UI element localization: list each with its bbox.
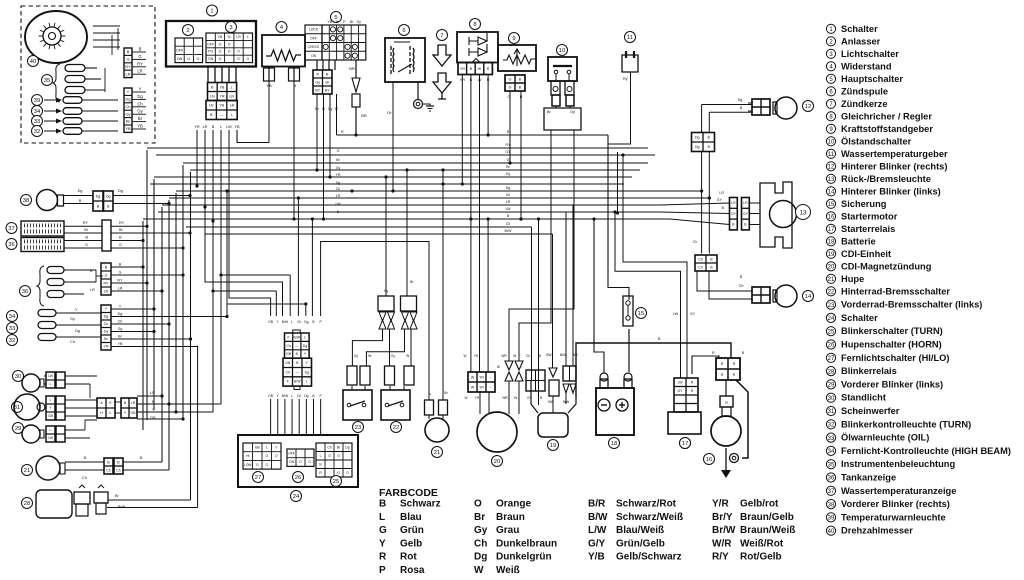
svg-text:33: 33 [9, 326, 15, 332]
fuel sender connector [505, 75, 525, 91]
bus wire R y=135 [337, 134, 609, 136]
connector below switch 1 [208, 83, 237, 101]
svg-text:YR: YR [479, 385, 484, 389]
svg-text:Y: Y [275, 446, 278, 450]
svg-text:YR: YR [220, 94, 225, 98]
svg-text:BR: BR [349, 66, 355, 71]
svg-text:Br: Br [138, 116, 143, 121]
svg-text:BW: BW [546, 353, 551, 357]
svg-text:LOCK: LOCK [309, 28, 319, 32]
magneto wires [479, 392, 481, 414]
svg-text:14: 14 [805, 294, 812, 300]
svg-text:B: B [519, 85, 522, 89]
svg-text:22: 22 [828, 290, 835, 296]
svg-text:Rosa: Rosa [400, 565, 425, 576]
svg-text:Grau: Grau [496, 525, 519, 536]
svg-text:36: 36 [22, 289, 28, 295]
svg-text:Anlasser: Anlasser [841, 36, 881, 46]
tachometer wires [93, 25, 120, 27]
svg-text:Weiß/Rot: Weiß/Rot [740, 538, 784, 549]
svg-text:W: W [497, 365, 501, 369]
svg-text:L: L [266, 446, 268, 450]
svg-text:B: B [470, 67, 473, 71]
svg-text:YB: YB [234, 125, 240, 129]
water temp gauge 37 [6, 223, 17, 234]
svg-text:Vorderer Blinker (links): Vorderer Blinker (links) [841, 379, 943, 389]
svg-text:BrW: BrW [560, 353, 566, 357]
svg-text:O: O [275, 454, 278, 458]
svg-text:WR: WR [501, 354, 507, 358]
svg-text:H: H [100, 411, 103, 415]
svg-text:8: 8 [829, 115, 833, 121]
svg-text:15: 15 [638, 311, 644, 317]
rectifier connector [472, 59, 480, 63]
svg-text:–: – [490, 375, 492, 379]
svg-text:5: 5 [829, 77, 833, 83]
svg-text:39: 39 [828, 516, 835, 522]
svg-text:—: — [296, 370, 300, 374]
rectifier 8 [470, 19, 481, 30]
svg-text:16: 16 [828, 215, 835, 221]
svg-text:Instrumentenbeleuchtung: Instrumentenbeleuchtung [841, 459, 955, 469]
scheinwerfer 31 [12, 402, 23, 413]
svg-text:Ch: Ch [286, 370, 290, 374]
svg-text:GY: GY [731, 212, 737, 216]
svg-text:O: O [337, 454, 340, 458]
svg-text:Br: Br [337, 445, 341, 449]
svg-text:Fernlicht-Kontrolleuchte (HIGH: Fernlicht-Kontrolleuchte (HIGH BEAM) [841, 446, 1011, 456]
svg-text:YR: YR [474, 354, 479, 358]
turn switch 25 [316, 443, 352, 477]
svg-text:34: 34 [9, 314, 16, 320]
bus wire Br y=170 [190, 169, 640, 171]
wires 12 connector [701, 105, 703, 133]
misc junction dots [519, 217, 522, 220]
svg-text:L: L [50, 428, 52, 432]
svg-text:RY: RY [119, 221, 125, 225]
svg-text:Temperaturwarnleuchte: Temperaturwarnleuchte [841, 512, 946, 522]
svg-text:Wassertemperaturanzeige: Wassertemperaturanzeige [841, 486, 956, 496]
svg-text:7: 7 [440, 33, 443, 39]
svg-text:39: 39 [34, 98, 40, 104]
svg-text:Rot/Gelb: Rot/Gelb [740, 552, 782, 563]
svg-text:35: 35 [44, 78, 50, 84]
svg-text:GY: GY [505, 150, 511, 154]
svg-text:P: P [379, 565, 386, 576]
svg-text:B: B [379, 499, 386, 510]
svg-text:Y: Y [124, 411, 127, 415]
svg-text:19: 19 [550, 443, 556, 449]
svg-text:L: L [247, 35, 249, 39]
svg-text:Dunkelgrün: Dunkelgrün [496, 552, 552, 563]
svg-text:Startermotor: Startermotor [841, 211, 898, 221]
bus wire Gy y=177 [154, 176, 632, 178]
svg-text:Gy: Gy [391, 354, 395, 358]
svg-text:Y: Y [139, 87, 142, 92]
battery 18 [596, 388, 634, 435]
svg-text:L/W: L/W [588, 525, 607, 536]
svg-text:Br: Br [115, 494, 120, 498]
svg-text:Br: Br [84, 228, 89, 232]
connector 12/14 pair [692, 133, 715, 152]
svg-text:P: P [343, 20, 346, 24]
svg-text:Y: Y [105, 307, 108, 311]
flasher wires to harness [108, 499, 191, 501]
svg-text:26: 26 [828, 343, 835, 349]
svg-text:Rot: Rot [400, 552, 417, 563]
svg-text:Schwarz/Weiß: Schwarz/Weiß [616, 512, 683, 523]
motor ground ring2 [730, 454, 739, 463]
svg-text:B: B [710, 265, 713, 269]
svg-text:Dg: Dg [303, 344, 307, 348]
svg-text:1: 1 [210, 9, 213, 15]
svg-text:YR: YR [336, 173, 341, 177]
magneto connector [468, 372, 495, 392]
cdi magneto 20 [477, 412, 517, 452]
svg-text:Ch: Ch [82, 476, 87, 480]
svg-text:16: 16 [706, 457, 712, 463]
svg-text:G: G [509, 85, 512, 89]
svg-text:B: B [312, 320, 315, 324]
svg-text:B: B [139, 47, 142, 52]
svg-text:Grün/Gelb: Grün/Gelb [616, 538, 665, 549]
svg-text:Dunkelbraun: Dunkelbraun [496, 538, 557, 549]
wire vertical x=143 [142, 221, 144, 430]
svg-text:Ch: Ch [106, 468, 111, 472]
instrument cluster enclosure [21, 6, 155, 143]
svg-text:HI: HI [246, 454, 249, 458]
wire vertical x=190.5 [190, 172, 192, 500]
svg-text:N: N [319, 462, 322, 466]
svg-text:Dg: Dg [345, 445, 349, 449]
svg-text:LR: LR [731, 201, 736, 205]
svg-text:Br: Br [513, 354, 517, 358]
svg-text:O: O [308, 460, 311, 464]
wires group2 to switches [366, 329, 404, 366]
svg-text:YR: YR [194, 125, 200, 129]
svg-text:BrW: BrW [282, 394, 289, 398]
svg-text:21: 21 [828, 277, 835, 283]
front turn signal right 38 [21, 195, 32, 206]
rear turn signal left 14 [803, 291, 814, 302]
svg-text:Weiß: Weiß [496, 565, 520, 576]
svg-text:LR: LR [104, 289, 109, 293]
main switch connector [316, 60, 318, 70]
svg-text:Ch: Ch [506, 222, 511, 226]
svg-text:LW: LW [335, 202, 341, 206]
svg-text:B: B [79, 199, 82, 203]
svg-text:B: B [539, 354, 541, 358]
svg-text:W: W [464, 396, 467, 400]
oil switch wires to cdi bullets [519, 130, 551, 357]
svg-text:1: 1 [829, 27, 833, 33]
svg-text:B: B [540, 396, 542, 400]
svg-text:Gelb/rot: Gelb/rot [740, 499, 779, 510]
svg-text:22: 22 [393, 425, 399, 431]
svg-text:L: L [220, 125, 222, 129]
bus wire LR y=205 [162, 204, 655, 206]
headlight connectors mid [97, 398, 115, 418]
svg-text:23: 23 [355, 425, 361, 431]
rear brake switch 22 [381, 390, 410, 420]
svg-text:G: G [126, 57, 129, 62]
stubs to tail light connector [655, 203, 730, 205]
svg-text:R: R [721, 373, 724, 377]
svg-text:LR: LR [336, 194, 341, 198]
svg-text:LN: LN [209, 104, 214, 108]
svg-text:Ch: Ch [118, 320, 123, 324]
svg-text:Gelb/Schwarz: Gelb/Schwarz [616, 552, 682, 563]
lamp connector 4 [101, 263, 111, 295]
svg-text:LW: LW [505, 207, 511, 211]
svg-text:B: B [744, 223, 747, 227]
svg-text:Gy: Gy [357, 20, 362, 24]
svg-text:Orange: Orange [496, 499, 531, 510]
dimmer switch 27 [243, 443, 281, 469]
gauge connector [102, 220, 111, 251]
svg-text:Schalter: Schalter [841, 24, 878, 34]
svg-text:20: 20 [494, 459, 500, 465]
svg-text:Y: Y [119, 305, 122, 309]
svg-text:R: R [712, 351, 715, 355]
R feed wire to fuse [608, 135, 629, 300]
svg-text:LR: LR [719, 191, 724, 195]
svg-text:GY: GY [717, 198, 723, 202]
legend list [826, 24, 878, 34]
svg-text:B: B [105, 265, 108, 269]
svg-text:Blau/Weiß: Blau/Weiß [616, 525, 664, 536]
light switch table 3 [206, 33, 253, 63]
svg-text:34: 34 [34, 109, 41, 115]
svg-text:25: 25 [333, 479, 339, 485]
svg-text:LR: LR [506, 200, 511, 204]
svg-text:11: 11 [828, 152, 835, 158]
svg-text:30: 30 [15, 374, 21, 380]
svg-text:Br: Br [368, 354, 372, 358]
svg-text:W: W [478, 67, 482, 71]
wire vertical x=147 [146, 150, 148, 420]
svg-text:Ch: Ch [125, 104, 130, 109]
svg-text:Gy: Gy [70, 317, 75, 321]
starter relay 17 [668, 412, 701, 434]
svg-text:Gy: Gy [118, 327, 123, 331]
svg-text:Hinterer Blinker (links): Hinterer Blinker (links) [841, 186, 941, 196]
svg-text:Dg: Dg [304, 320, 308, 324]
svg-text:Zündspule: Zündspule [841, 86, 888, 96]
svg-text:L: L [50, 398, 52, 402]
tachometer 40 [25, 11, 87, 63]
svg-text:19: 19 [828, 252, 835, 258]
svg-text:32: 32 [828, 423, 835, 429]
svg-text:BrW: BrW [282, 320, 289, 324]
battery wires [594, 219, 604, 373]
svg-text:Br: Br [514, 396, 518, 400]
svg-text:12: 12 [805, 104, 811, 110]
svg-text:GB: GB [285, 361, 291, 365]
svg-text:G: G [337, 149, 340, 153]
svg-text:7: 7 [829, 102, 833, 108]
bus wire Ch2 y=227 [186, 226, 532, 228]
svg-text:Br: Br [444, 391, 448, 395]
svg-text:G: G [119, 271, 122, 275]
svg-text:YR: YR [104, 345, 109, 349]
lower instrument lights [37, 266, 44, 306]
svg-text:L: L [231, 85, 233, 89]
svg-text:Starterrelais: Starterrelais [841, 224, 895, 234]
battery terminals [600, 379, 608, 388]
svg-text:B: B [211, 85, 214, 89]
svg-text:B: B [740, 106, 743, 110]
svg-text:31: 31 [828, 409, 835, 415]
svg-text:R: R [691, 389, 694, 393]
svg-text:38: 38 [828, 502, 835, 508]
fuse 15 [623, 296, 633, 326]
wire vertical x=154 [153, 179, 155, 410]
svg-text:10: 10 [828, 140, 835, 146]
svg-text:Dg: Dg [106, 194, 111, 198]
svg-text:15: 15 [828, 202, 835, 208]
svg-text:Scheinwerfer: Scheinwerfer [841, 406, 900, 416]
svg-text:OFF: OFF [176, 49, 184, 53]
svg-text:Dg: Dg [75, 329, 80, 333]
svg-text:O: O [299, 460, 302, 464]
svg-text:E: E [109, 401, 112, 405]
svg-text:Gy: Gy [506, 172, 511, 176]
svg-text:Blinkerrelais: Blinkerrelais [841, 366, 897, 376]
relay feed wires LW GY [615, 212, 681, 378]
svg-text:O: O [197, 57, 200, 61]
svg-text:YB: YB [327, 20, 332, 24]
cluster internal wires [117, 28, 119, 50]
svg-text:Br: Br [547, 110, 552, 114]
svg-text:36: 36 [828, 476, 835, 482]
svg-text:21: 21 [24, 468, 30, 474]
svg-text:R: R [733, 362, 736, 366]
cluster connector B [124, 88, 132, 132]
svg-text:LW: LW [673, 312, 679, 316]
svg-text:35: 35 [828, 462, 835, 468]
svg-text:O: O [474, 499, 482, 510]
svg-text:B: B [519, 77, 522, 81]
svg-text:BY: BY [325, 88, 330, 92]
horn switch 26 [287, 449, 314, 466]
svg-text:Kraftstoffstandgeber: Kraftstoffstandgeber [841, 124, 933, 134]
fuel gauge 36 [6, 239, 17, 250]
svg-text:37: 37 [828, 489, 835, 495]
inline connector group 2 [406, 170, 408, 296]
inline connector group brake switches [378, 296, 394, 311]
svg-text:A: A [100, 401, 103, 405]
svg-text:B: B [296, 361, 299, 365]
svg-text:24: 24 [293, 494, 300, 500]
svg-text:Y/R: Y/R [712, 499, 729, 510]
svg-text:17: 17 [828, 227, 835, 233]
svg-text:Blinkerkontrolleuchte (TURN): Blinkerkontrolleuchte (TURN) [841, 419, 971, 429]
svg-text:BrW: BrW [294, 335, 301, 339]
svg-text:B: B [85, 236, 88, 240]
resistor 4 [276, 22, 287, 33]
svg-text:LW: LW [48, 436, 54, 440]
svg-text:YR: YR [479, 375, 484, 379]
svg-text:O: O [256, 463, 259, 467]
svg-text:W: W [463, 354, 466, 358]
svg-text:L: L [291, 320, 293, 324]
svg-text:B: B [124, 401, 127, 405]
svg-text:B: B [658, 337, 661, 341]
svg-text:ON: ON [208, 57, 214, 61]
svg-text:6: 6 [829, 90, 833, 96]
svg-text:Y: Y [49, 406, 52, 410]
svg-text:YB: YB [218, 35, 223, 39]
svg-text:Ölstandschalter: Ölstandschalter [841, 136, 912, 146]
svg-text:Zündkerze: Zündkerze [841, 99, 888, 109]
coil wires [392, 120, 394, 191]
svg-text:33: 33 [828, 436, 835, 442]
instrument lights 35 [42, 75, 53, 86]
blinker links 29 [13, 423, 24, 434]
svg-text:Schwarz/Rot: Schwarz/Rot [616, 499, 677, 510]
svg-text:L: L [379, 512, 385, 523]
svg-text:LR: LR [236, 35, 241, 39]
horn left ball [22, 465, 33, 476]
svg-text:L: L [320, 454, 322, 458]
svg-text:Ch: Ch [297, 320, 301, 324]
svg-text:Grün: Grün [400, 525, 424, 536]
coil ground [417, 82, 419, 99]
svg-text:W: W [474, 565, 484, 576]
svg-text:10: 10 [559, 48, 565, 54]
svg-text:GB: GB [286, 352, 292, 356]
svg-text:6: 6 [402, 28, 405, 34]
svg-text:O: O [237, 57, 240, 61]
svg-text:B: B [722, 206, 725, 210]
starter ground [725, 448, 727, 470]
svg-text:CHECK: CHECK [308, 45, 321, 49]
lamp connector 6 [101, 305, 111, 350]
svg-text:Blau: Blau [400, 512, 422, 523]
fuel level sender 9 [509, 33, 520, 44]
ignition coil 6 [399, 25, 410, 36]
wire vertical x=162 [161, 207, 163, 462]
svg-text:Or: Or [387, 110, 392, 115]
starter motor 16 [711, 416, 741, 446]
wire vertical x=176 [175, 193, 177, 412]
svg-text:G: G [105, 273, 108, 277]
svg-text:R: R [487, 67, 490, 71]
svg-text:27: 27 [828, 356, 835, 362]
svg-text:38: 38 [23, 198, 29, 204]
svg-text:R/Y: R/Y [712, 552, 729, 563]
svg-text:LR: LR [131, 401, 136, 405]
svg-text:P: P [320, 394, 323, 398]
svg-text:Ch: Ch [336, 187, 341, 191]
svg-text:B: B [119, 236, 122, 240]
svg-text:B: B [740, 275, 743, 279]
svg-text:GB: GB [131, 411, 137, 415]
svg-text:B: B [97, 204, 100, 208]
svg-text:26: 26 [295, 475, 301, 481]
horn 21 [425, 418, 449, 442]
svg-text:RY: RY [506, 143, 512, 147]
svg-text:Widerstand: Widerstand [841, 61, 892, 71]
wire vertical x=169 [168, 200, 170, 470]
svg-text:O: O [219, 50, 222, 54]
svg-text:9: 9 [829, 127, 833, 133]
svg-text:YB: YB [125, 126, 131, 131]
svg-text:F: F [288, 335, 290, 339]
svg-text:3: 3 [829, 52, 833, 58]
svg-text:B: B [140, 456, 143, 460]
